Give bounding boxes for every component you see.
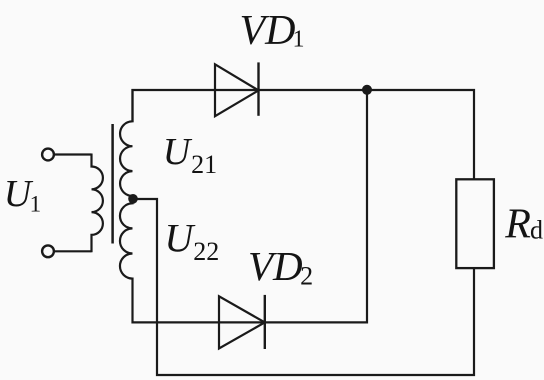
diode VD2 triangle [219, 296, 265, 348]
transformer secondary lower winding (U22) [120, 199, 133, 279]
transformer secondary upper winding (U21) [120, 89, 132, 199]
wire: VD2 net (secondary bottom lead, bottom diode row, vertical up to junction) [133, 90, 368, 322]
diode VD1 triangle [215, 64, 259, 116]
wire: primary bottom lead [54, 250, 92, 252]
svg-text:U22: U22 [164, 215, 219, 265]
transformer core [111, 124, 114, 244]
terminal bottom-left circle [42, 245, 54, 257]
svg-text:VD1: VD1 [240, 8, 305, 54]
node junction dot (diode cathodes common point) [362, 85, 372, 95]
terminal top-left circle [42, 149, 54, 161]
diode VD2 cathode bar [264, 295, 266, 349]
node: center tap dot [128, 194, 138, 204]
transformer primary winding L1 [92, 154, 103, 253]
diode VD1 cathode bar [257, 62, 259, 115]
wire: primary top lead [54, 153, 92, 155]
wire: top net from secondary top lead to right side [133, 90, 475, 180]
svg-text:VD2: VD2 [248, 243, 313, 291]
svg-text:U1: U1 [4, 173, 41, 216]
svg-text:Rd: Rd [504, 201, 543, 247]
svg-text:U21: U21 [163, 131, 217, 179]
resistor Rd body [456, 179, 494, 268]
wire: right bottom + bottom wire + left return + center tap run [137, 199, 474, 375]
